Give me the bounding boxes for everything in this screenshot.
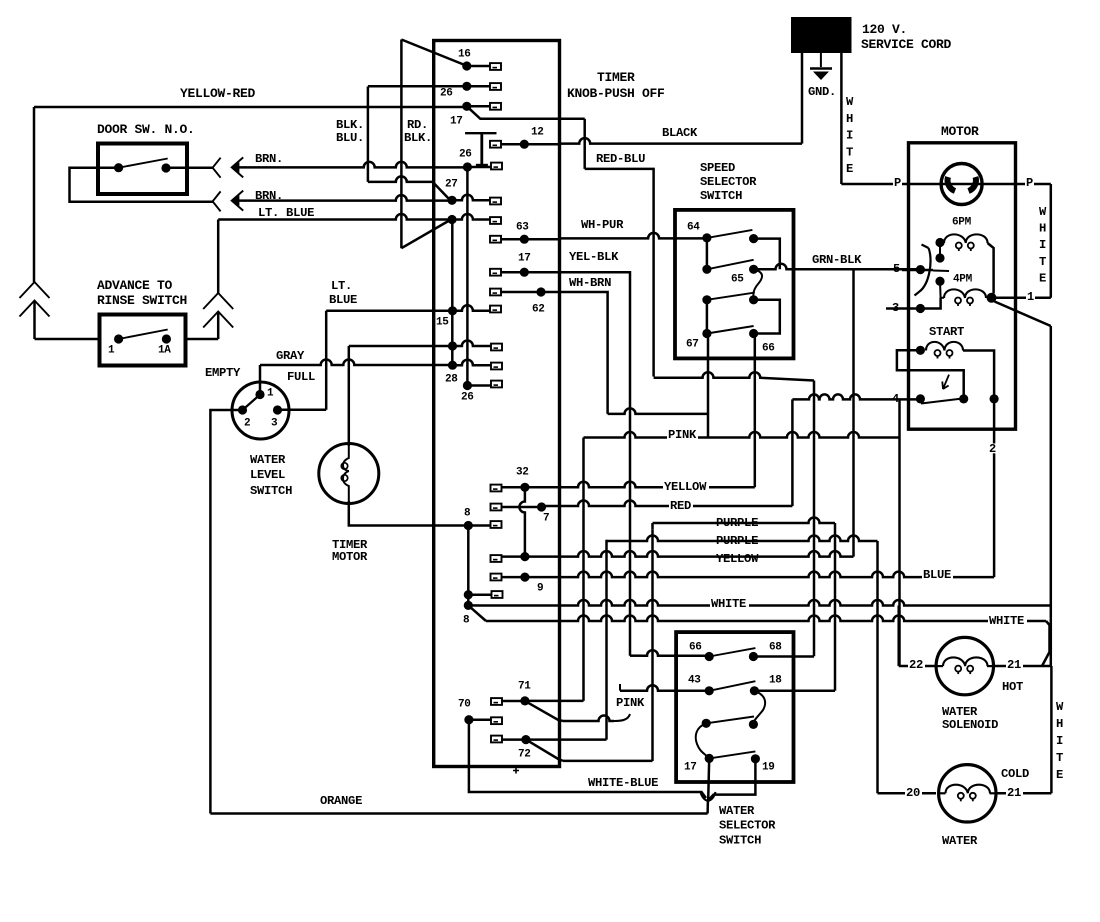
wire door switch right to connector [166,166,213,169]
wire PURPLE1 row [653,518,836,524]
watersel lever m [706,717,754,724]
watersel terminal 18 [750,686,759,695]
motor terminal 3 [916,304,925,313]
wire WHITE neutral drop [840,53,843,184]
wire YEL-BLK down [560,272,631,293]
label ORANGE [319,796,365,806]
label PURPLE 1 [715,518,761,528]
wire wls-2 down-left (orange feed) [210,410,242,814]
spade 72 [491,736,502,743]
wire contact low drop [940,281,944,298]
door switch lever [119,159,168,168]
wire BRN top to timer 26 [238,162,466,168]
wire rowA drop to selector [813,381,816,657]
svg-text:BLUE: BLUE [923,568,951,582]
wire 66 riser down [754,334,757,488]
motor link 242-258 [939,243,941,259]
spade 63 [490,236,501,243]
svg-text:27: 27 [445,178,458,190]
label 4 [891,394,900,404]
svg-text:SOLENOID: SOLENOID [942,718,998,732]
terminal 16 [462,61,471,70]
service cord block [791,17,852,53]
svg-text:WHITE: WHITE [711,597,746,611]
wire wls-3 to LT.BLUE corner [278,409,327,412]
wire PINK row upper [584,432,900,438]
connector chevrons on left rail [20,282,50,298]
svg-text:67: 67 [686,338,699,350]
svg-text:FULL: FULL [287,370,315,384]
svg-text:15: 15 [436,316,449,328]
label 2 [988,444,997,454]
spade 27 [490,198,501,205]
wire 27 to spade [452,195,490,201]
wire diag 1 to rail [995,302,1051,327]
stray tick mark [513,768,519,774]
watersel lever 66 [709,648,755,656]
svg-text:YEL-BLK: YEL-BLK [569,250,619,264]
wire 32 to spade [501,486,525,489]
svg-text:12: 12 [531,126,544,138]
svg-text:19: 19 [762,761,775,773]
motor coil 6PM left dot [935,238,944,247]
speed sel terminal 67 [702,329,711,338]
spade 26b [491,163,502,170]
svg-text:RD.: RD. [407,118,428,132]
wire 18 row out [754,689,835,692]
spade 26d [491,381,502,388]
door switch box [98,144,187,195]
svg-text:43: 43 [688,674,701,686]
terminal 12 [520,140,529,149]
svg-text:1A: 1A [158,344,171,356]
terminal lt-blue [447,215,456,224]
wire timer motor bottom to terminal 8 [349,501,466,526]
vertical 72 riser [605,540,608,740]
motor start dot [916,346,925,355]
wire 62 row WH-BRN [501,291,560,294]
wire PURPLE2 row [607,536,878,542]
wire LT.BLUE drop to rinse connector [217,220,220,294]
terminal 71 [520,696,529,705]
svg-text:RED-BLU: RED-BLU [596,152,645,166]
wire 17b row YEL-BLK [501,271,560,274]
terminal 70 [464,715,473,724]
wire gnd stub [820,53,822,67]
wire BLUE row [525,572,994,578]
terminal 26b [463,162,472,171]
wire 17a diagonal to black row [467,106,585,119]
speed sel terminal tr [749,234,758,243]
wire 4 row from timer [792,394,920,399]
svg-text:18: 18 [769,674,782,686]
wire start loop [897,350,964,399]
wire 71 to spade [501,700,525,703]
wire YELLOW2 row [525,551,854,557]
wire timer row 26 top [368,85,466,88]
svg-text:17: 17 [450,115,463,127]
wire GRAY from wls-1 to timer 26 [259,365,262,395]
svg-text:WHITE-BLUE: WHITE-BLUE [588,776,658,790]
wire RED-BLU jog [585,169,654,377]
svg-text:72: 72 [518,748,531,760]
svg-text:BLUE: BLUE [329,293,357,307]
svg-text:66: 66 [762,342,775,354]
label P right [1025,178,1034,188]
motor terminal 5 [916,265,925,274]
wire 19 drop [710,759,756,799]
terminal 17a [462,102,471,111]
vertical 32 down [519,487,525,556]
wire purple1 to 18 riser [834,523,837,691]
svg-text:GRN-BLK: GRN-BLK [812,253,862,267]
speed sel hook 65-br [753,269,762,300]
motor wiper arc [915,245,931,296]
door switch contact left [114,163,123,172]
wire 67 riser down [707,334,710,439]
svg-text:E: E [1056,768,1063,782]
svg-text:WATER: WATER [250,453,286,467]
svg-text:4PM: 4PM [953,273,973,285]
water level switch contact 3 [273,405,282,414]
label PINK upper [667,430,698,440]
wire BRN bottom to timer 27 [238,195,450,201]
svg-text:2: 2 [989,442,996,456]
wire LT.BLUE to timer [218,214,450,220]
svg-text:32: 32 [516,466,529,478]
wire 70 to spade [469,718,491,721]
svg-text:YELLOW-RED: YELLOW-RED [180,86,256,101]
water level switch contact 2 [238,405,247,414]
svg-text:68: 68 [769,641,782,653]
wire funnel diagonal to lt-blue dot [401,220,451,249]
svg-text:WATER: WATER [942,834,978,848]
cold solenoid circle [939,765,996,822]
wire 21 row hot [993,665,1051,668]
svg-text:T: T [1056,751,1063,765]
svg-text:H: H [1056,717,1063,731]
wire 63 row WH-PUR [501,238,560,241]
svg-text:YELLOW: YELLOW [716,552,759,566]
wire 68 row out [753,655,814,658]
svg-text:MOTOR: MOTOR [941,124,979,139]
svg-text:20: 20 [906,786,920,800]
label YELLOW [663,482,709,492]
spade 17b [490,269,501,276]
wire right rail lower [1050,326,1053,666]
wire 2 drop [993,399,996,577]
wire red-blu rowA [654,372,814,380]
watersel lever 43 [709,681,755,691]
terminal 346 [448,341,457,350]
wire 22 riser [897,606,900,667]
watersel terminal 66 [705,652,714,661]
svg-text:SWITCH: SWITCH [719,834,761,848]
svg-text:16: 16 [458,48,471,60]
timer motor circle [319,444,379,504]
label 1 [1026,292,1035,302]
water level switch circle [232,382,289,439]
wire 4PM left join 3row [920,298,940,309]
door switch contact right [161,163,170,172]
svg-text:BLU.: BLU. [336,131,364,145]
wire 15 to spade [453,305,491,311]
svg-text:H: H [1039,222,1046,236]
svg-text:W: W [1056,700,1064,714]
svg-text:W: W [846,95,854,109]
svg-text:RED: RED [670,499,691,513]
wire pink riser to 71 [582,438,585,701]
wire wh-brn to 67 riser [608,408,708,413]
wire left rail to rinse switch [33,301,36,340]
spade 594 [492,591,503,598]
svg-text:RINSE SWITCH: RINSE SWITCH [97,293,187,308]
wire start coil right [963,351,994,399]
motor start coil [926,342,963,351]
label PURPLE 2 [715,536,761,546]
label 5 [892,264,901,274]
wire YELLOW row [525,482,755,487]
wire harness staple blk-blu [367,87,370,182]
spade 28 [491,363,502,370]
motor box [909,143,1016,429]
spade 70 [491,717,502,724]
speed sel terminal ml [702,265,711,274]
label RED [669,501,693,511]
svg-text:PINK: PINK [616,696,645,710]
wire orange [210,812,707,815]
svg-text:SPEED: SPEED [700,161,735,175]
wire RED row [542,501,793,507]
svg-text:ORANGE: ORANGE [320,794,362,808]
motor coil 4PM [944,289,986,298]
svg-text:COLD: COLD [1001,767,1029,781]
wire 8a to spade [468,524,490,527]
connector arrows BRN top [213,158,221,178]
timer motor coil [343,446,349,501]
speed sel lever ml [707,260,754,270]
wire yellowrow to spade [501,555,525,558]
wire 71 diagonal pink [525,701,563,721]
terminal 72 [521,735,530,744]
svg-text:H: H [846,112,853,126]
motor circle [941,164,982,205]
svg-text:YELLOW: YELLOW [664,480,707,494]
timer box [434,41,560,767]
wire WH-PUR to 64 [560,233,707,238]
watersel hook 17 up [696,723,709,758]
wire black drop from 17 row [583,119,586,169]
vertical lt-blue to 365 [451,220,454,366]
svg-text:63: 63 [516,221,529,233]
spade 62 [490,289,501,296]
svg-text:I: I [846,129,853,143]
speed sel terminal 64 [702,233,711,242]
label WHITE row [710,599,749,609]
label 3 [891,303,900,313]
svg-text:71: 71 [518,680,531,692]
label YELLOW 2 [715,554,761,564]
wire 17a to spade [467,105,490,108]
speed sel left link top [706,238,709,269]
svg-text:TIMER: TIMER [597,70,635,85]
svg-text:E: E [846,162,853,176]
wire white rail right [1050,184,1053,298]
wire door switch left loop [70,168,214,202]
spade 12 [490,141,501,148]
svg-text:I: I [1039,238,1046,252]
wire 28 to spade [453,360,492,366]
svg-text:7: 7 [543,512,549,524]
svg-text:1: 1 [267,387,274,399]
svg-text:WATER: WATER [719,804,755,818]
svg-text:BRN.: BRN. [255,152,283,166]
label GRN-BLK [811,255,864,265]
svg-text:BLK.: BLK. [336,118,364,132]
motor junction 1 [987,293,997,303]
svg-text:1: 1 [108,344,115,356]
spade 7 [491,504,502,511]
wire YELLOW-RED from left rail to timer terminal 17 [34,106,466,109]
terminal 26d [463,381,472,390]
label P left [893,178,902,188]
svg-text:LT. BLUE: LT. BLUE [258,206,314,220]
watersel contact m l [702,719,711,728]
wire 26a to spade [467,85,490,88]
wire 43 row hook [619,684,621,691]
wire 3 stub [886,307,920,310]
svg-text:WH-BRN: WH-BRN [569,276,611,290]
svg-text:17: 17 [684,761,697,773]
speed sel left link bottom [706,300,709,334]
wire funnel diagonal to 16 [401,40,466,66]
speed sel terminal br [749,295,758,304]
wire WH-BRN down [560,292,608,414]
svg-text:T: T [1039,255,1046,269]
wire 72 row [501,738,607,741]
svg-text:17: 17 [518,252,531,264]
svg-text:120 V.: 120 V. [862,22,907,37]
wire 4row branch down [898,399,901,666]
wire rinse switch right lead [217,312,220,340]
label 20 [905,788,922,798]
wire lt-blue term to spade [452,214,490,220]
svg-text:BLACK: BLACK [662,126,698,140]
spade 71 [491,698,502,705]
svg-text:KNOB-PUSH OFF: KNOB-PUSH OFF [567,86,665,101]
wire harness funnel vertical [400,40,403,249]
terminal 17b [520,268,529,277]
svg-text:START: START [929,325,964,339]
svg-text:SWITCH: SWITCH [700,189,742,203]
water level switch contact 1 [255,390,264,399]
svg-text:DOOR SW. N.O.: DOOR SW. N.O. [97,122,195,137]
svg-text:P: P [1026,176,1033,190]
wire 26b to spade [467,166,491,169]
wire right rail bottom [1050,666,1053,793]
svg-text:MOTOR: MOTOR [332,550,368,564]
motor contact low [935,277,944,286]
vertical 26b to 26d [466,167,469,386]
svg-text:WHITE: WHITE [989,614,1024,628]
svg-text:WH-PUR: WH-PUR [581,218,624,232]
wire P row [841,183,1050,186]
speed sel lever 67 [707,326,754,334]
wire left rail vertical (yellow-red) [33,107,36,282]
svg-text:LT.: LT. [331,279,352,293]
svg-text:6PM: 6PM [952,216,972,228]
wire red riser to motor4 [791,399,794,506]
terminal 63 [520,235,529,244]
wire 72 diagonal [526,740,563,761]
watersel terminal 17 [705,754,714,763]
motor lever 4 [921,399,963,404]
motor contact mid [935,253,944,262]
wire 1 row [992,297,1051,300]
svg-text:21: 21 [1007,658,1021,672]
svg-text:EMPTY: EMPTY [205,366,241,380]
label 21 cold [1006,788,1023,798]
wire 5 stub [866,268,909,271]
spade yellowrow [491,555,502,562]
spade ltblue [490,217,501,224]
svg-text:26: 26 [461,391,474,403]
selector pointer arrow [701,792,716,801]
speed sel terminal bl [702,295,711,304]
advance to rinse switch box [100,315,186,366]
wire GRN-BLK 65 to motor 5 [754,264,921,270]
spade 16 [490,63,501,70]
svg-text:28: 28 [445,373,458,385]
rinse switch lever [119,330,168,340]
terminal yellow row [520,552,529,561]
wire 12 row [501,143,560,146]
spade 8a [491,521,502,528]
knob switch T-bar [465,132,496,134]
watersel terminal 19 [751,754,760,763]
svg-text:64: 64 [687,221,700,233]
speed sel terminal 66 [749,329,758,338]
spade 346 [491,344,502,351]
motor coil 6PM [944,234,988,243]
terminal 26a [462,82,471,91]
wire selector top row feed [630,654,641,657]
svg-text:PINK: PINK [668,428,697,442]
terminal 9 [520,573,529,582]
wire 594 to spade [468,593,491,596]
terminal 15 [448,306,457,315]
terminal 62 [536,287,545,296]
wire purple2 to 20 riser [876,541,879,793]
motor start junction [990,394,999,403]
speed sel right link bottom [754,300,780,334]
spade 15 [490,306,501,313]
wire 16 to spade [467,65,490,68]
terminal 27 [447,196,456,205]
svg-text:WATER: WATER [942,705,978,719]
svg-text:62: 62 [532,303,545,315]
hot solenoid coil [937,665,944,667]
svg-text:T: T [846,145,853,159]
wire 20 row [878,792,937,795]
wire 6PM right drop [988,243,994,294]
wire purple1 drop [651,530,654,761]
speed selector box [675,210,794,359]
wire 346 to spade [453,341,492,347]
spade 26a [490,83,501,90]
wire BLACK row [560,138,803,144]
watersel contact m r [749,720,758,729]
